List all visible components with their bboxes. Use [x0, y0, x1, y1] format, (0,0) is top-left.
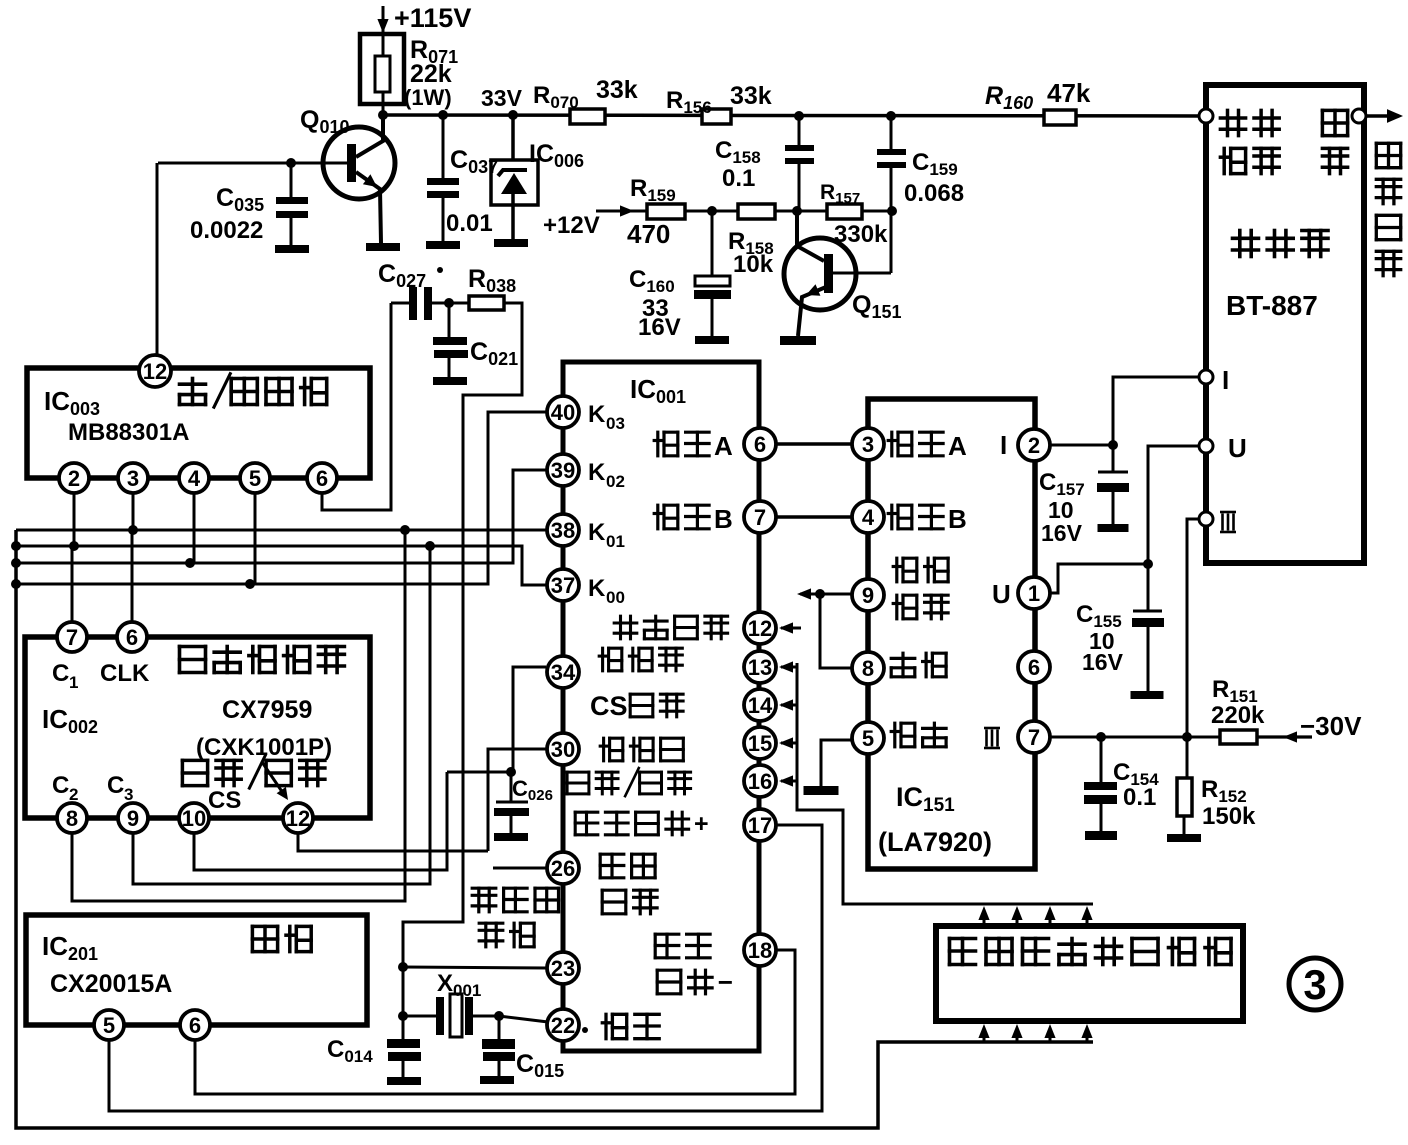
ground Q151 emitter: [780, 336, 816, 345]
label band B IC001: [654, 504, 733, 534]
svg-text:13: 13: [748, 655, 772, 680]
pin 6 of IC201: [180, 1010, 210, 1040]
pin 8 of IC002: [57, 803, 87, 833]
ground C021: [433, 377, 467, 385]
svg-text:7: 7: [66, 625, 78, 650]
pin 18 of IC001: [744, 934, 776, 966]
terminal U: [1199, 439, 1213, 453]
pin 16 of IC001: [744, 765, 776, 797]
arrows matrix top: [978, 906, 989, 926]
svg-text:3: 3: [1303, 961, 1326, 1008]
pin 37 of IC001: [547, 569, 579, 601]
terminal IF out: [1352, 109, 1366, 123]
pin 26 of IC001: [547, 852, 579, 884]
svg-text:6: 6: [126, 625, 138, 650]
svg-text:CS: CS: [208, 787, 241, 814]
label memory IO line1: [600, 738, 623, 761]
pin 7 of IC151: [1018, 721, 1050, 753]
svg-text:9: 9: [862, 583, 874, 608]
svg-text:2: 2: [69, 785, 78, 804]
svg-text:1: 1: [69, 673, 78, 692]
resistor R038: [468, 265, 516, 310]
wire band B: [776, 515, 852, 519]
svg-text:2: 2: [68, 466, 80, 491]
svg-text:K: K: [588, 519, 606, 546]
pin 1 of IC151: [1018, 577, 1050, 609]
capacitor C037 0.01: [427, 115, 498, 241]
ground C035: [275, 245, 309, 253]
label III at pin7: [984, 728, 1000, 748]
pin 9 of IC151: [852, 579, 884, 611]
label sync input line1: [600, 854, 624, 878]
wire IC003 pin6 to C027: [322, 303, 391, 510]
terminal III: [1199, 512, 1213, 526]
wire terminal III riser: [1187, 519, 1199, 778]
wire key lines riser to matrix: [797, 663, 1093, 904]
pin 3 of IC151: [852, 428, 884, 460]
IC U IC003 box: [27, 368, 370, 478]
svg-text:A: A: [948, 431, 967, 461]
IC U IC001 box: [563, 362, 759, 1051]
label AFT plus: [575, 812, 598, 835]
bus line K00 wire: [16, 470, 547, 563]
svg-text:6: 6: [1028, 655, 1040, 680]
ground C037: [426, 241, 460, 249]
pin 30 of IC001: [547, 733, 579, 765]
wire IC002 pin10 to CS riser: [194, 772, 447, 870]
svg-text:I: I: [1222, 365, 1229, 395]
node pin23 wire: [398, 962, 408, 972]
block keyboard matrix: [936, 926, 1243, 1021]
node C015 tap: [494, 1011, 504, 1021]
wire pin34 to CS riser: [513, 667, 546, 772]
svg-text:03: 03: [606, 414, 625, 433]
node base C035: [286, 158, 296, 168]
label power volt line1: [893, 558, 917, 582]
svg-text:22k: 22k: [410, 60, 452, 88]
node C160 tap: [707, 206, 717, 216]
junction IC002 C3 riser on K02: [425, 541, 435, 551]
wire IC002 pin7 up: [71, 546, 74, 622]
svg-text:U: U: [1228, 433, 1247, 463]
svg-text:0.01: 0.01: [446, 210, 493, 237]
svg-text:14: 14: [748, 693, 773, 718]
wire pin30 to data riser: [488, 749, 546, 851]
wire R038 to pin23 riser: [403, 303, 522, 1040]
svg-text:33k: 33k: [596, 76, 638, 104]
pin 22 of IC001: [547, 1009, 579, 1041]
svg-text:16V: 16V: [1082, 649, 1124, 675]
pin 5 of IC151: [852, 722, 884, 754]
node C159 top: [886, 111, 896, 121]
svg-text:+115V: +115V: [394, 3, 471, 33]
svg-text:16V: 16V: [1041, 520, 1083, 546]
ground C014: [387, 1077, 421, 1085]
svg-text:39: 39: [551, 458, 575, 483]
svg-text:02: 02: [606, 472, 625, 491]
wire pin17 to IC201 pin5: [109, 825, 822, 1111]
pin 6 of IC002: [117, 622, 147, 652]
svg-text:CX7959: CX7959: [222, 696, 312, 724]
capacitor C035 0.0022: [190, 163, 308, 245]
capacitor C157 10 16V: [1039, 445, 1129, 546]
svg-text:12: 12: [143, 359, 167, 384]
wire IC002 pin6 up: [131, 530, 134, 622]
svg-text:33V: 33V: [481, 85, 523, 111]
wire pin18 to IC201 pin6: [195, 950, 795, 1094]
svg-text:18: 18: [748, 938, 772, 963]
resistor R158 10k: [728, 204, 775, 278]
page number 3: [1289, 958, 1341, 1010]
wire band A: [776, 442, 852, 446]
transistor Q010: [300, 106, 395, 243]
svg-text:12: 12: [286, 806, 310, 831]
wire pin1 to U riser: [1050, 564, 1148, 593]
ground C015: [480, 1076, 514, 1084]
IC U IC201 box: [26, 915, 367, 1025]
resistor R151 220k: [1211, 676, 1265, 744]
resistor R160 47k: [985, 78, 1091, 125]
svg-text:BT-887: BT-887: [1226, 290, 1318, 321]
bus line K01: [16, 529, 548, 532]
capacitor C015: [482, 1016, 564, 1081]
svg-text:I: I: [1000, 430, 1007, 460]
ground C155: [1131, 691, 1164, 699]
arrow pin9 stub: [797, 588, 852, 599]
label sync input line2: [602, 890, 626, 914]
pin 12 of IC001: [744, 612, 776, 644]
svg-text:4: 4: [188, 466, 201, 491]
svg-text:CS: CS: [590, 691, 628, 721]
zener diode IC006: [491, 115, 584, 239]
label band A IC151: [888, 431, 967, 461]
wire R159-R158: [685, 210, 738, 213]
svg-text:B: B: [948, 504, 967, 534]
arrow into pin12: [779, 622, 801, 633]
pin 14 of IC001: [744, 689, 776, 721]
wire -30V feed: [1257, 711, 1362, 743]
pin 38 of IC001: [547, 514, 579, 546]
svg-text:9: 9: [127, 806, 139, 831]
power +12V arrow: [543, 205, 647, 239]
svg-text:C: C: [107, 772, 124, 799]
resistor R071 22k 1W: [360, 34, 458, 115]
node pin9-pin8 link: [815, 589, 825, 599]
svg-text:−30V: −30V: [1300, 711, 1362, 741]
node C159 bottom: [887, 206, 897, 216]
svg-text:10k: 10k: [733, 251, 774, 278]
svg-text:40: 40: [551, 400, 575, 425]
pin 5 of IC003: [240, 463, 270, 493]
wire main 33V rail: [383, 115, 1203, 116]
capacitor C027: [378, 260, 469, 320]
pin 3 of IC003: [118, 463, 148, 493]
svg-text:1: 1: [1028, 581, 1040, 606]
pin 7 of IC002: [57, 622, 87, 652]
svg-text:0.068: 0.068: [904, 180, 964, 207]
node R071 output: [378, 110, 388, 120]
junction IC003 pin2 on K02: [69, 541, 79, 551]
wire terminal U riser: [1148, 446, 1199, 610]
capacitor C158 0.1: [715, 116, 814, 211]
node U pin1 join: [1143, 559, 1153, 569]
wire CS riser horizontal to C026: [447, 771, 511, 774]
terminal I: [1199, 370, 1213, 384]
svg-text:01: 01: [606, 532, 625, 551]
svg-text:−: −: [718, 967, 733, 997]
capacitor C159 0.068: [877, 116, 964, 211]
label memory CS out line1: [599, 648, 622, 671]
pin 23 of IC001: [547, 952, 579, 984]
IC U IC151 box: [868, 399, 1035, 869]
svg-text:47k: 47k: [1047, 78, 1091, 108]
label ground label: [891, 723, 915, 747]
svg-text:6: 6: [189, 1013, 201, 1038]
pin 15 of IC001: [744, 727, 776, 759]
pin 12 of IC003: [139, 355, 171, 387]
pin 10 of IC002: [179, 803, 209, 833]
pin 5 of IC201: [94, 1010, 124, 1040]
transistor Q151: [784, 211, 902, 336]
label field sync line1: [472, 888, 496, 912]
bus line K02 wire: [16, 546, 547, 585]
wire pin7 rail: [1050, 736, 1220, 739]
capacitor C160 33uF 16V: [629, 211, 731, 341]
svg-text:0.0022: 0.0022: [190, 217, 263, 244]
capacitor C154 0.1: [1084, 737, 1159, 831]
label memory CS out line2: [590, 691, 683, 721]
ground IC151 pin5: [804, 786, 839, 795]
svg-text:7: 7: [754, 505, 766, 530]
label power volt line2: [893, 595, 917, 619]
svg-text:38: 38: [551, 518, 575, 543]
svg-text:30: 30: [551, 737, 575, 762]
label band A IC001: [654, 431, 733, 461]
svg-text:2: 2: [1028, 433, 1040, 458]
capacitor C026: [494, 767, 553, 833]
svg-text:5: 5: [862, 726, 874, 751]
svg-text:5: 5: [103, 1013, 115, 1038]
bus line K03 wire: [16, 412, 546, 584]
wire IC003 pin4 down: [193, 493, 196, 563]
svg-text:37: 37: [551, 573, 575, 598]
junction IC002 C2 riser on K01: [400, 525, 410, 535]
svg-text:6: 6: [754, 432, 766, 457]
label band B IC151: [888, 504, 967, 534]
svg-text:A: A: [714, 431, 733, 461]
svg-text:MB88301A: MB88301A: [68, 419, 189, 446]
svg-text:0.1: 0.1: [1123, 784, 1156, 811]
pin 6 of IC003: [307, 463, 337, 493]
IC U IC002 box: [25, 637, 370, 818]
capacitor C155 10 16V: [1076, 601, 1164, 691]
arrow IF output: [1366, 109, 1403, 123]
svg-text:7: 7: [1028, 725, 1040, 750]
arrows matrix bottom: [978, 1024, 989, 1042]
svg-text:K: K: [588, 401, 606, 428]
junction IC003 pin5 on K03: [245, 579, 255, 589]
arrow into pin16: [779, 775, 797, 786]
terminal tuning voltage: [1199, 109, 1213, 123]
svg-text:15: 15: [748, 731, 772, 756]
wire R157 right: [862, 210, 892, 213]
junction IC003 pin3 on K01: [128, 525, 138, 535]
wire field sync stub: [493, 867, 546, 870]
svg-text:K: K: [588, 459, 606, 486]
pin 4 of IC003: [179, 463, 209, 493]
svg-text:3: 3: [862, 432, 874, 457]
svg-text:8: 8: [66, 806, 78, 831]
label control: [891, 653, 915, 677]
svg-text:3: 3: [127, 466, 139, 491]
svg-text:(1W): (1W): [404, 85, 452, 110]
svg-text:150k: 150k: [1202, 803, 1256, 830]
pin 17 of IC001: [744, 809, 776, 841]
wire IC003 pin5 down: [254, 493, 257, 584]
node C037 tap: [438, 110, 448, 120]
wire pin5 to ground: [821, 740, 852, 786]
resistor R156 33k: [666, 82, 772, 124]
svg-text:34: 34: [551, 660, 576, 685]
wire to pin 23: [403, 967, 547, 968]
node C158 top: [794, 111, 804, 121]
svg-text:22: 22: [551, 1013, 575, 1038]
ground Q010 emitter: [366, 243, 400, 251]
ground IC006: [494, 239, 528, 247]
node IC006 33V tap: [508, 110, 518, 120]
wire pin9 to pin8: [820, 594, 852, 668]
ground R152: [1167, 834, 1201, 842]
svg-text:K: K: [588, 575, 606, 602]
pin 6 of IC001: [744, 428, 776, 460]
resistor R070 33k: [533, 76, 638, 124]
svg-text:23: 23: [551, 956, 575, 981]
pin 2 of IC151: [1018, 429, 1050, 461]
svg-text:16V: 16V: [638, 314, 681, 341]
wire K bus to matrix bottom: [16, 530, 1093, 1128]
wire IC002 pin8 to K01 riser: [72, 530, 405, 901]
pin 13 of IC001: [744, 651, 776, 683]
svg-text:470: 470: [627, 219, 670, 249]
svg-text:16: 16: [748, 769, 772, 794]
svg-text:C: C: [52, 772, 69, 799]
crystal X001: [403, 970, 548, 1037]
pin 7 of IC001: [744, 501, 776, 533]
capacitor C021: [433, 303, 518, 377]
svg-text:5: 5: [249, 466, 261, 491]
wire pin2 to terminal I: [1050, 377, 1199, 445]
ground C026: [494, 833, 528, 841]
node C157 tap: [1108, 440, 1118, 450]
svg-text:12: 12: [748, 616, 772, 641]
svg-text:6: 6: [316, 466, 328, 491]
pin 12 of IC002: [283, 803, 313, 833]
svg-text:0.1: 0.1: [722, 165, 755, 192]
resistor R152 150k: [1177, 776, 1256, 834]
arrow into pin14: [779, 699, 797, 710]
label AFT minus line2: [657, 970, 681, 994]
label IF output vertical: [1376, 143, 1400, 275]
wire IC003 pin2 down: [73, 493, 76, 546]
pin 39 of IC001: [547, 454, 579, 486]
pin 8 of IC151: [852, 652, 884, 684]
svg-text:U: U: [992, 579, 1011, 609]
ground C157: [1098, 524, 1129, 532]
ground C154: [1085, 831, 1117, 840]
arrow into pin13: [779, 661, 797, 672]
svg-text:CX20015A: CX20015A: [50, 970, 172, 998]
resistor R159 470: [627, 175, 685, 249]
svg-text:8: 8: [862, 656, 874, 681]
svg-text:+12V: +12V: [543, 212, 600, 239]
svg-text:B: B: [714, 504, 733, 534]
ground C160: [695, 336, 729, 344]
label field sync line2: [479, 923, 503, 947]
node X001 left: [398, 1011, 408, 1021]
svg-text:(LA7920): (LA7920): [878, 827, 992, 857]
node III R152 tap: [1182, 732, 1192, 742]
tuner block BT-887: [1206, 85, 1364, 563]
pin 6 of IC151: [1018, 651, 1050, 683]
node Q151 collector tap: [792, 206, 802, 216]
wire Q010 base to IC003 pin12: [157, 163, 347, 357]
pin 2 of IC003: [59, 463, 89, 493]
label oscillator: [582, 1014, 659, 1038]
resistor R157 330k: [820, 181, 888, 248]
pin 4 of IC151: [852, 501, 884, 533]
label remote input: [614, 616, 637, 639]
svg-text:+: +: [694, 810, 709, 838]
capacitor C014: [327, 1016, 421, 1077]
svg-text:C: C: [52, 660, 69, 687]
node C027 R038 C021: [444, 298, 454, 308]
svg-text:33k: 33k: [730, 82, 772, 110]
svg-text:17: 17: [748, 813, 772, 838]
junction IC003 pin4 on K00: [185, 558, 195, 568]
svg-text:CLK: CLK: [100, 660, 150, 687]
svg-text:220k: 220k: [1211, 702, 1265, 729]
wire IC003 pin3 down: [132, 493, 135, 530]
svg-text:4: 4: [862, 505, 875, 530]
wire IC002 pin12 to data riser: [298, 833, 488, 851]
pin 34 of IC001: [547, 656, 579, 688]
pin 9 of IC002: [118, 803, 148, 833]
wire R158-R157: [775, 210, 827, 213]
label memory IO line2: [567, 772, 589, 794]
arrow into pin15: [779, 737, 797, 748]
label auto line1: [655, 934, 679, 958]
svg-text:00: 00: [606, 588, 625, 607]
svg-text:26: 26: [551, 856, 575, 881]
power +115V arrow: [377, 3, 471, 56]
junction dots on K bus left: [11, 541, 21, 551]
svg-text:10: 10: [182, 806, 206, 831]
wire IC002 pin9 to K02 riser: [133, 546, 430, 884]
node C154 tap: [1096, 732, 1106, 742]
pin 40 of IC001: [547, 396, 579, 428]
